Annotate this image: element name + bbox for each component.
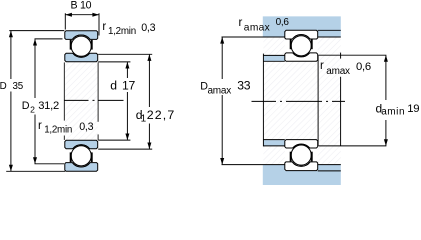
svg-text:22,7: 22,7 bbox=[147, 108, 176, 122]
svg-text:17: 17 bbox=[122, 79, 136, 93]
svg-text:0,3: 0,3 bbox=[79, 121, 93, 133]
svg-text:B 10: B 10 bbox=[71, 0, 92, 11]
svg-text:D: D bbox=[22, 100, 30, 112]
svg-text:1,2min: 1,2min bbox=[108, 26, 136, 37]
svg-text:r: r bbox=[320, 60, 324, 72]
svg-text:D: D bbox=[0, 81, 7, 92]
svg-text:19: 19 bbox=[407, 103, 419, 115]
svg-text:1,2min: 1,2min bbox=[44, 125, 72, 136]
svg-text:2: 2 bbox=[30, 104, 35, 114]
svg-text:amax: amax bbox=[208, 85, 232, 96]
svg-text:amax: amax bbox=[244, 23, 270, 34]
svg-text:0,3: 0,3 bbox=[141, 22, 155, 34]
svg-text:33: 33 bbox=[237, 79, 251, 93]
svg-text:r: r bbox=[239, 17, 243, 29]
svg-text:0,6: 0,6 bbox=[276, 17, 290, 28]
svg-text:r: r bbox=[102, 21, 106, 33]
svg-text:amax: amax bbox=[326, 66, 350, 77]
svg-text:amin: amin bbox=[381, 107, 405, 118]
svg-text:0,6: 0,6 bbox=[356, 61, 371, 73]
svg-text:31,2: 31,2 bbox=[38, 100, 59, 112]
svg-text:d: d bbox=[110, 79, 117, 93]
svg-text:35: 35 bbox=[13, 81, 24, 92]
svg-text:r: r bbox=[38, 120, 42, 132]
svg-text:1: 1 bbox=[141, 114, 147, 125]
